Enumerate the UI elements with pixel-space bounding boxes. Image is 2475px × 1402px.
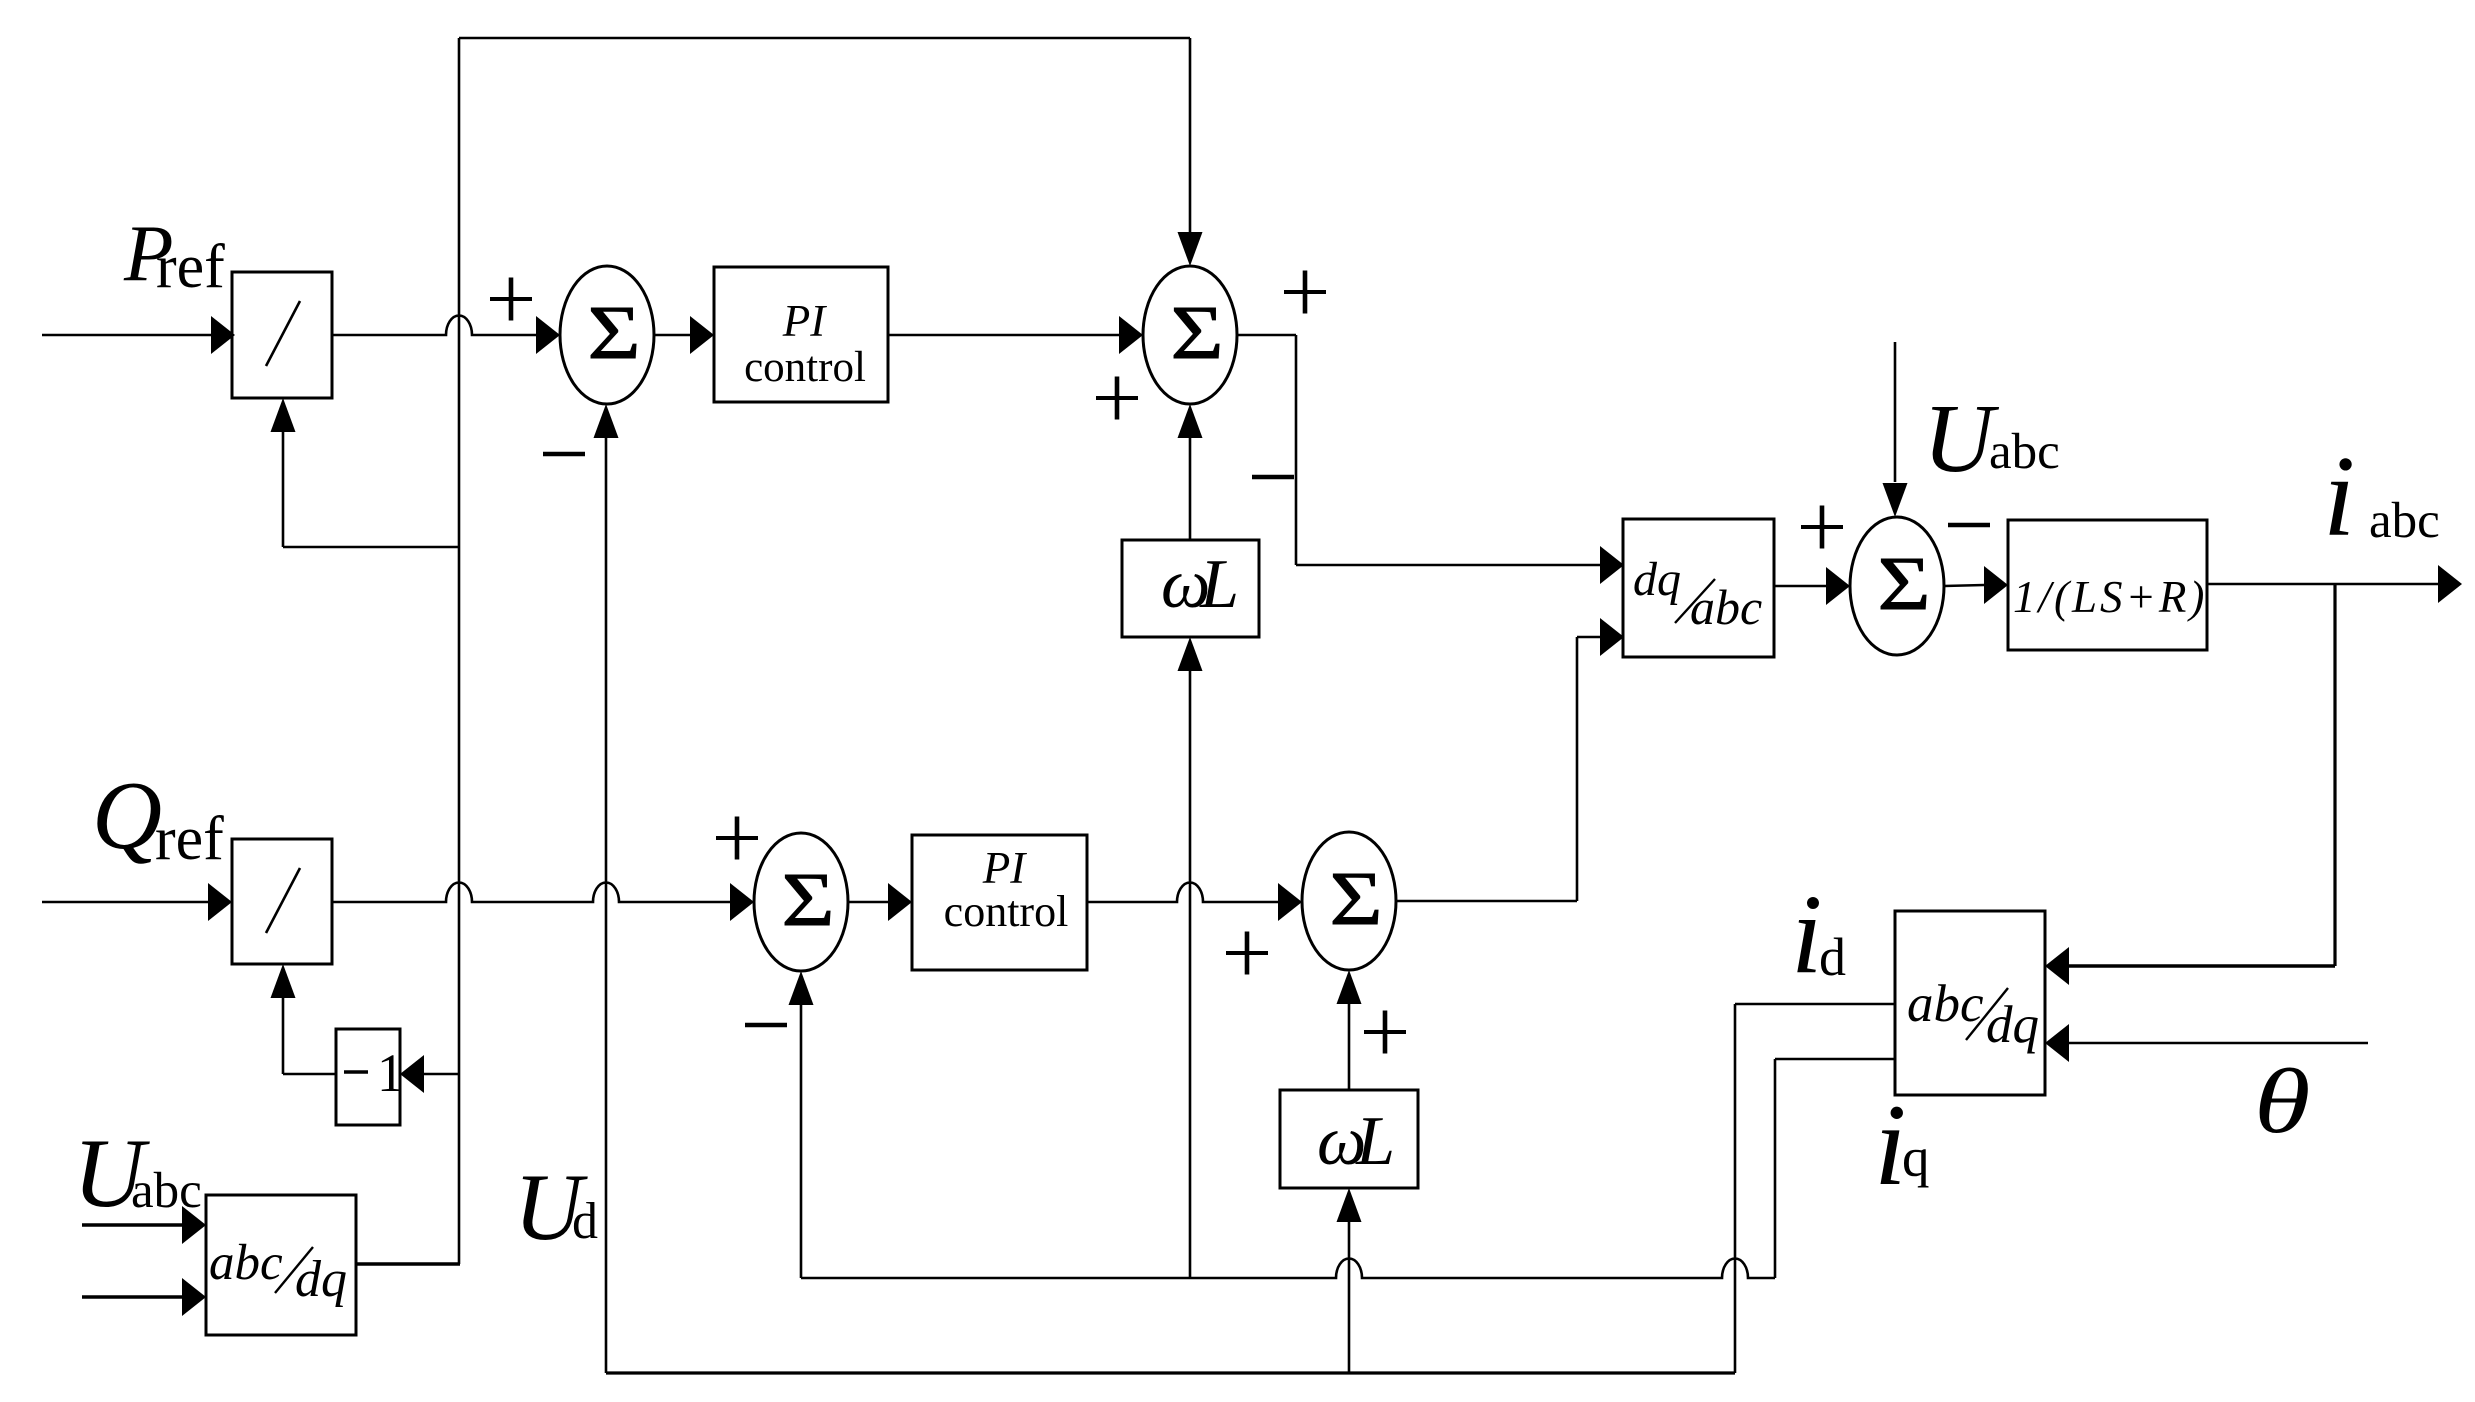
label Uabc bottom xyxy=(73,1119,202,1228)
wire sum3 to LSR block xyxy=(1944,566,2008,604)
svg-text:d: d xyxy=(1819,927,1846,987)
wire sum1 to PI control P xyxy=(654,316,714,354)
plus sign sum1 input xyxy=(490,278,532,321)
label iq xyxy=(1874,1081,1930,1210)
wire Pref input xyxy=(42,316,235,354)
wire sum5 output to dq/abc second input xyxy=(1396,618,1624,901)
wire Uabc input a xyxy=(82,1206,206,1244)
plus sign sum2 top-right xyxy=(1284,271,1326,314)
wire iq into sum4 bottom xyxy=(789,971,814,1278)
wire Uabc into sum3 xyxy=(1883,342,1908,517)
wire iabc feedback down xyxy=(2045,584,2335,985)
wire abc/dq output to Ud line xyxy=(356,1262,460,1265)
block omegaL lower xyxy=(1280,1090,1418,1188)
wire bottom id line xyxy=(606,1371,1735,1374)
summing junction sum3 xyxy=(1850,517,1944,655)
label Qref xyxy=(92,762,224,873)
wire theta input xyxy=(2045,1024,2368,1062)
minus sign sum4 bottom xyxy=(745,1023,787,1028)
plus sign sum3 left xyxy=(1801,506,1843,549)
wire dq/abc to sum3 xyxy=(1774,567,1850,605)
wire iq from abc/dq xyxy=(1775,1059,1895,1278)
wire Ud line into sum1 bottom xyxy=(594,404,619,1373)
label id xyxy=(1791,872,1846,997)
svg-text:control: control xyxy=(744,344,866,391)
label theta xyxy=(2254,1050,2310,1152)
minus sign sum3 right xyxy=(1948,523,1990,528)
plus sign sum2 bottom-left xyxy=(1096,377,1138,420)
wire iq line up to omegaL1 xyxy=(1178,637,1203,1278)
wire Ud branch to -1 block xyxy=(400,1055,459,1093)
svg-text:q: q xyxy=(1902,1127,1930,1188)
svg-text:Σ: Σ xyxy=(1329,857,1382,941)
label Uabc top xyxy=(1923,385,2060,493)
svg-text:control: control xyxy=(944,887,1069,936)
plus sign sum4 input xyxy=(716,817,758,860)
wire omegaL2 to sum5 xyxy=(1337,970,1362,1090)
svg-text:d: d xyxy=(572,1193,598,1250)
svg-text:1/(LS+R): 1/(LS+R) xyxy=(2013,572,2207,622)
wire id from abc/dq xyxy=(1735,1004,1895,1373)
svg-text:abc: abc xyxy=(131,1163,202,1219)
svg-text:dq: dq xyxy=(1633,553,1681,606)
summing junction sum1 xyxy=(560,266,654,404)
wire sum2 output to dq/abc xyxy=(1237,335,1624,584)
svg-text:abc: abc xyxy=(1989,424,2060,480)
svg-text:PI: PI xyxy=(982,843,1027,893)
plus sign sum5 left xyxy=(1226,932,1268,975)
svg-text:abc: abc xyxy=(1907,975,1984,1033)
svg-text:Σ: Σ xyxy=(781,858,834,942)
divider block Q xyxy=(232,839,332,964)
svg-text:θ: θ xyxy=(2254,1050,2310,1152)
block 1/(LS+R) xyxy=(2008,520,2207,650)
wire PI P to sum2 xyxy=(888,316,1143,354)
svg-text:Σ: Σ xyxy=(1877,542,1930,626)
minus sign sum2 output branch xyxy=(1252,475,1294,480)
wire sum4 to PI control Q xyxy=(848,883,912,921)
svg-text:Σ: Σ xyxy=(587,291,640,375)
divider block P xyxy=(232,272,332,398)
top feedforward wire xyxy=(459,38,1203,1264)
label Pref xyxy=(123,208,225,301)
svg-text:ref: ref xyxy=(156,233,225,301)
svg-text:Σ: Σ xyxy=(1170,291,1223,375)
wire omegaL1 to sum2 xyxy=(1178,404,1203,540)
wire Q divider to sum4 with hops xyxy=(332,883,754,921)
svg-text:ωL: ωL xyxy=(1161,546,1239,623)
wire PI Q to sum5 with hop xyxy=(1087,883,1302,921)
svg-text:1: 1 xyxy=(377,1043,404,1103)
wire id line into omegaL2 xyxy=(1337,1188,1362,1373)
svg-text:i: i xyxy=(2323,433,2355,561)
block abc/dq bottom-left xyxy=(206,1195,356,1335)
minus sign sum1 bottom xyxy=(543,452,585,457)
label iabc xyxy=(2323,433,2440,561)
wire P divider to sum1 with hop over Ud line xyxy=(332,316,560,355)
svg-text:i: i xyxy=(1791,872,1822,997)
label Ud xyxy=(514,1154,598,1260)
wire iabc output xyxy=(2207,565,2462,603)
wire P feedback to divider xyxy=(271,398,461,547)
plus sign sum5 bottom xyxy=(1364,1011,1406,1054)
svg-text:ref: ref xyxy=(155,805,224,873)
svg-text:abc: abc xyxy=(209,1235,283,1291)
wire Uabc input b xyxy=(82,1278,206,1316)
svg-text:dq: dq xyxy=(295,1251,347,1308)
summing junction sum4 xyxy=(754,833,848,971)
svg-text:abc: abc xyxy=(2369,493,2440,549)
block abc/dq right xyxy=(1895,911,2045,1095)
wire -1 to Q divider xyxy=(271,964,337,1074)
summing junction sum5 xyxy=(1302,832,1396,970)
block PI control P-loop xyxy=(714,267,888,402)
svg-text:PI: PI xyxy=(782,296,827,346)
svg-text:ωL: ωL xyxy=(1317,1103,1395,1180)
svg-text:abc: abc xyxy=(1690,579,1762,635)
block -1 xyxy=(336,1029,404,1125)
block dq/abc xyxy=(1623,519,1774,657)
svg-text:Q: Q xyxy=(92,762,162,869)
summing junction sum2 xyxy=(1143,266,1237,404)
wire iq return line with hops xyxy=(801,1259,1775,1279)
block PI control Q-loop xyxy=(912,835,1087,970)
block omegaL upper xyxy=(1122,540,1259,637)
wire Qref input xyxy=(42,883,232,921)
svg-text:dq: dq xyxy=(1986,996,2039,1054)
